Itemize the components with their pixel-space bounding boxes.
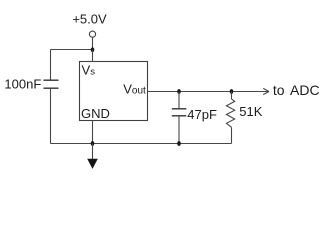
pin label GND: [81, 106, 110, 121]
resistor 51K: [226, 92, 234, 144]
op-amp / regulator IC U1 body: [80, 62, 148, 121]
ground symbol: [87, 144, 98, 169]
wire Vout horizontal: [148, 91, 269, 93]
value label 47pF: [187, 107, 217, 122]
wire bottom ground rail: [51, 143, 232, 145]
capacitor 47pF: [172, 109, 187, 116]
wire top horizontal to 100nF branch: [51, 49, 93, 51]
wire left vertical down to 100nF: [50, 50, 52, 81]
pin label Vout: [123, 81, 146, 96]
svg-text:out: out: [132, 85, 146, 96]
node junction 47pF to ground rail: [177, 141, 181, 146]
svg-text:s: s: [90, 67, 95, 78]
pin label Vs: [82, 63, 96, 78]
wire GND pin from IC down to bottom rail: [92, 121, 94, 144]
arrowhead to ADC: [263, 88, 269, 94]
wire Vs pin from node into IC: [92, 50, 94, 62]
wire 47pF branch lower: [178, 116, 180, 144]
svg-text:100nF: 100nF: [4, 76, 41, 91]
svg-text:ADC: ADC: [290, 82, 320, 98]
node junction at 47pF tap: [177, 89, 181, 94]
value label 51K: [239, 104, 262, 119]
net +5.0V label: [72, 12, 107, 27]
+5V terminal circle: [89, 31, 95, 37]
svg-text:V: V: [82, 63, 91, 78]
net label to ADC: [273, 82, 320, 98]
wire 47pF branch upper: [178, 92, 180, 109]
wire from 100nF down to bottom rail: [50, 88, 52, 143]
node junction at GND rail: [91, 141, 95, 146]
node junction at 51K tap: [230, 89, 234, 94]
svg-text:47pF: 47pF: [187, 107, 217, 122]
wire from +5V terminal down to node: [92, 37, 94, 49]
svg-text:51K: 51K: [239, 104, 262, 119]
svg-text:to: to: [273, 82, 285, 98]
svg-text:GND: GND: [81, 106, 110, 121]
node junction at +5V: [91, 47, 95, 52]
svg-text:+5.0V: +5.0V: [72, 12, 107, 27]
value label 100nF: [4, 76, 41, 91]
capacitor 100nF: [44, 80, 59, 88]
